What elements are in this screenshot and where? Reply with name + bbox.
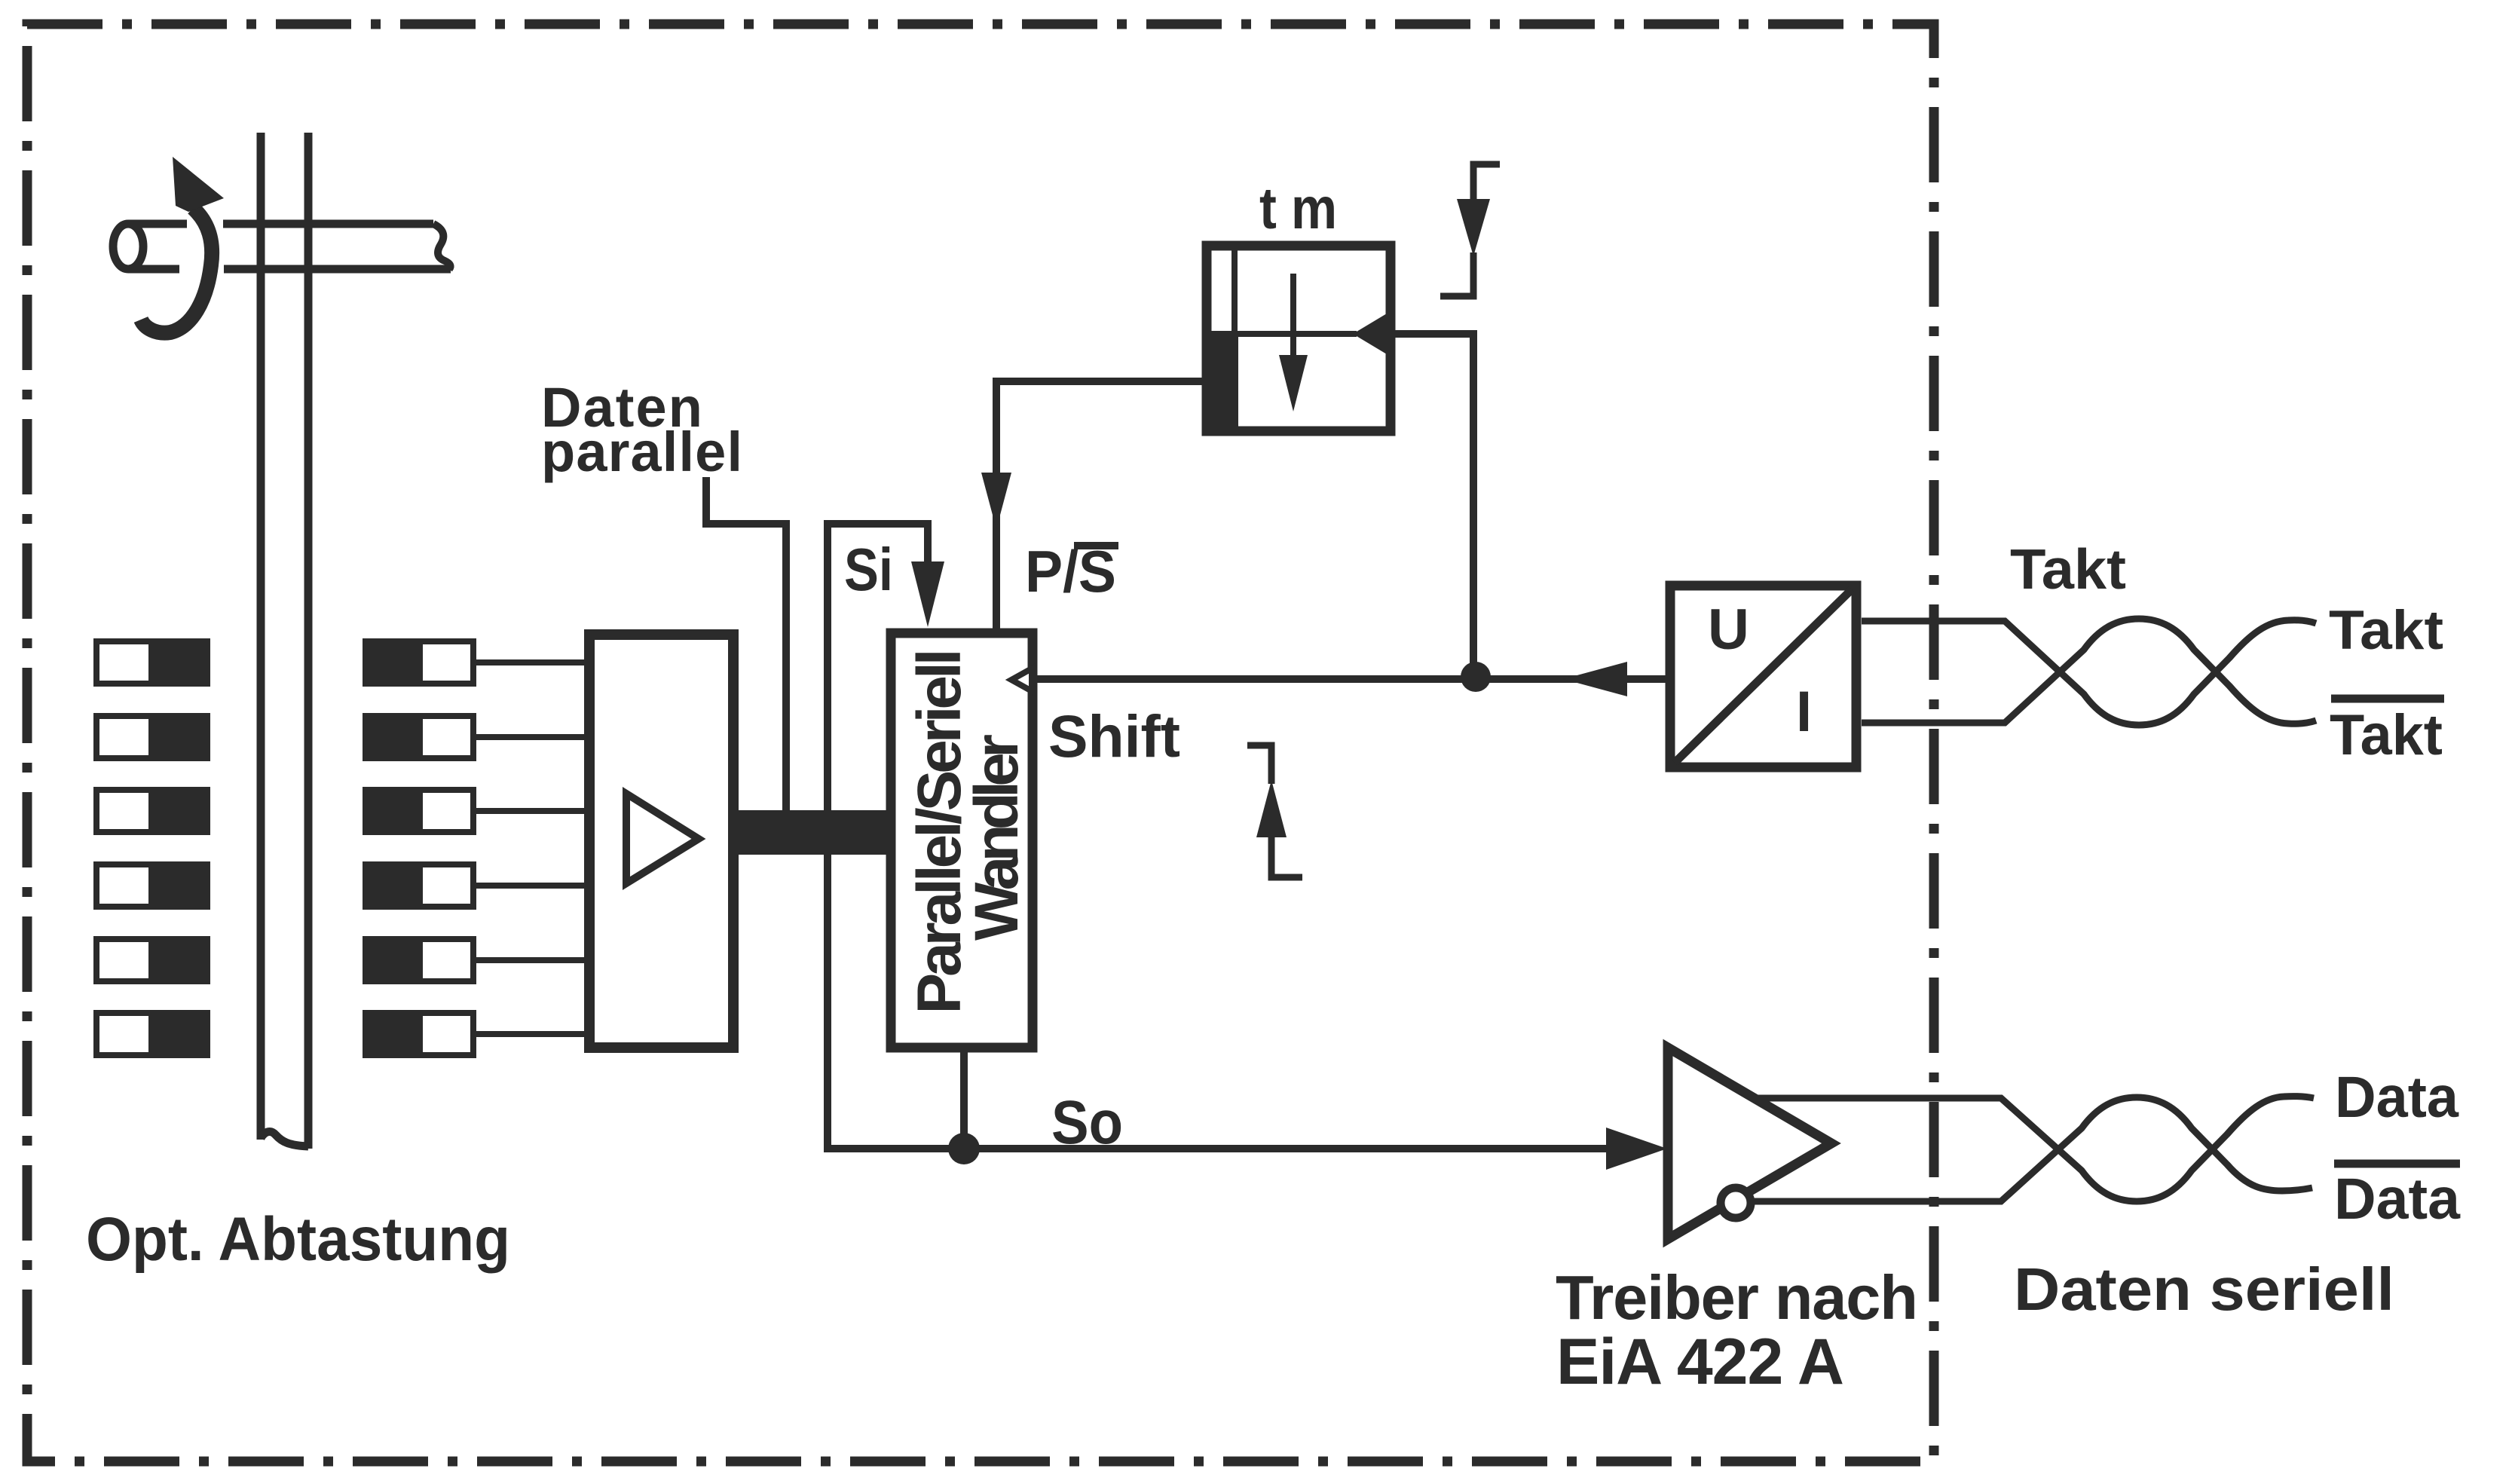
left sensor row 5 xyxy=(96,939,207,981)
parallel data bus (thick) xyxy=(735,810,891,855)
svg-text:Shift: Shift xyxy=(1048,702,1180,770)
So junction dot xyxy=(948,1133,980,1164)
svg-text:So: So xyxy=(1051,1088,1123,1157)
svg-text:parallel: parallel xyxy=(541,421,742,483)
code disc line right xyxy=(304,133,313,1149)
Takt twisted pair wire B xyxy=(1862,619,2316,724)
converter box label (rotated) xyxy=(905,649,1031,1014)
right sensor row 6 xyxy=(366,1013,589,1055)
tm down arrow xyxy=(1290,274,1296,362)
code disc line left xyxy=(257,133,265,1140)
Daten parallel pointer wire xyxy=(706,477,786,814)
clock junction dot xyxy=(1461,662,1491,692)
Si arrow into box xyxy=(911,561,944,627)
svg-text:Opt. Abtastung: Opt. Abtastung xyxy=(86,1205,510,1274)
left sensor row 3 xyxy=(96,790,207,832)
svg-text:Data: Data xyxy=(2334,1167,2461,1232)
svg-text:Data: Data xyxy=(2335,1065,2459,1130)
right sensor row 3 xyxy=(366,790,589,832)
line driver triangle xyxy=(1668,1048,1831,1239)
Takt twisted pair wire A xyxy=(1862,620,2316,725)
U/I diagonal xyxy=(1675,589,1852,763)
right sensor row 1 xyxy=(366,641,589,684)
tm inner divider vertical xyxy=(1231,246,1238,334)
Treiber nach EiA 422 A label xyxy=(1556,1262,1918,1398)
tm trigger wire to clock line xyxy=(1391,334,1473,675)
svg-text:Takt: Takt xyxy=(2010,537,2126,601)
left sensor row 4 xyxy=(96,864,207,907)
clock arrow to left xyxy=(1563,662,1627,696)
shaft break xyxy=(433,224,451,269)
falling edge symbol top right xyxy=(1473,164,1500,203)
tm trigger wedge xyxy=(1353,311,1391,356)
left sensor row 6 xyxy=(96,1013,207,1055)
tm mid divider horizontal xyxy=(1207,331,1357,337)
svg-text:Treiber nach: Treiber nach xyxy=(1556,1262,1918,1333)
driver inverting bubble xyxy=(1721,1188,1751,1218)
amplifier box xyxy=(589,635,733,1048)
Data twisted pair wire A xyxy=(1754,1097,2314,1201)
svg-text:Si: Si xyxy=(844,536,893,603)
disc bottom break xyxy=(261,1131,308,1146)
clock wedge on converter xyxy=(1011,669,1032,691)
shaft xyxy=(113,224,143,269)
amplifier triangle xyxy=(626,794,699,883)
svg-text:Wandler: Wandler xyxy=(962,734,1031,941)
svg-text:I: I xyxy=(1796,680,1812,744)
U/I converter box xyxy=(1670,586,1856,767)
left sensor row 2 xyxy=(96,716,207,758)
So wire from converter bottom xyxy=(960,1052,968,1149)
tm black cell xyxy=(1204,334,1238,430)
svg-text:Daten seriell: Daten seriell xyxy=(2014,1256,2394,1323)
parallel/serial converter box U2 xyxy=(891,633,1033,1048)
left sensor row 1 xyxy=(96,641,207,684)
So arrow into driver xyxy=(1606,1128,1667,1170)
So output wire xyxy=(957,1145,1609,1152)
svg-text:t m: t m xyxy=(1259,175,1337,241)
right sensor row 2 xyxy=(366,716,589,758)
right sensor row 4 xyxy=(366,864,589,907)
rotation arrow xyxy=(141,208,212,333)
Shift clock wire xyxy=(1033,675,1667,683)
svg-text:Takt: Takt xyxy=(2330,703,2443,767)
svg-text:EiA 422 A: EiA 422 A xyxy=(1556,1326,1844,1398)
right sensor row 5 xyxy=(366,939,589,981)
Daten parallel label xyxy=(541,376,742,483)
frame dash-dot border xyxy=(27,24,1934,1461)
Si feedback wire (So to Si) xyxy=(828,524,957,1149)
P/S wire from monoflop xyxy=(996,381,1207,629)
svg-text:U: U xyxy=(1708,598,1749,662)
rising edge symbol below Shift xyxy=(1247,745,1271,784)
Data twisted pair wire B xyxy=(1752,1097,2312,1201)
monoflop tm box xyxy=(1207,246,1391,431)
P/S arrow xyxy=(981,473,1011,529)
svg-text:Takt: Takt xyxy=(2329,600,2443,661)
